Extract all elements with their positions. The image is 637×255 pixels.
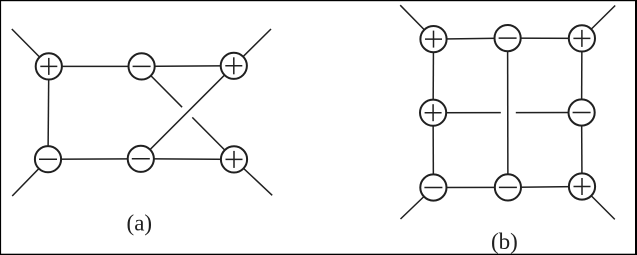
- wire A2-A3: [142, 65, 234, 68]
- wire A1-A4: [47, 66, 50, 159]
- wire B-BL - B-BM: [433, 186, 508, 188]
- svg-text:(b): (b): [491, 229, 518, 254]
- wire ray at node A3 (up-right): [234, 29, 271, 66]
- wire B-TL - B-TM: [434, 38, 508, 39]
- wire ray at node A6 (down-right): [234, 159, 272, 195]
- node B-BR (+): [569, 173, 595, 199]
- wire B-TM - B-BM (vertical, over crossing): [507, 38, 509, 187]
- wire ray at node B-TR (up-right): [582, 6, 615, 39]
- wire ray at node A1 (up-left): [12, 29, 49, 66]
- node B-TL (+): [420, 26, 446, 52]
- node B-MR (-): [569, 99, 595, 125]
- node B-ML (+): [420, 100, 446, 126]
- wire A2-A6 (broken at crossing, under): [142, 66, 234, 159]
- node A3 (+): [221, 53, 247, 79]
- node A5 (-): [128, 146, 154, 172]
- wire A5-A6: [141, 158, 234, 161]
- wire B-MR - B-BR: [581, 113, 583, 187]
- wire B-BM - B-BR: [508, 186, 582, 189]
- wire B-TR - B-MR: [581, 38, 583, 112]
- node A4 (-): [35, 146, 61, 172]
- node A1 (+): [36, 53, 62, 79]
- wire A1-A2: [49, 65, 142, 67]
- node B-TR (+): [569, 25, 595, 51]
- wire B-TL - B-ML: [432, 39, 434, 113]
- wire A5-A3 (over crossing): [141, 66, 234, 159]
- node B-TM (-): [495, 25, 521, 51]
- node A2 (-): [129, 53, 155, 79]
- wire ray at node B-TL (up-left): [400, 5, 433, 39]
- wire A4-A5: [48, 158, 141, 160]
- wire ray at node A4 (down-left): [12, 159, 48, 196]
- wire ray at node B-BR (down-right): [582, 187, 615, 220]
- wire B-ML - B-BL: [432, 113, 434, 188]
- node B-BM (-): [495, 174, 521, 200]
- wire B-TM - B-TR: [508, 37, 582, 39]
- node A6 (+): [221, 146, 247, 172]
- wire B-ML - B-MR (broken at crossing, under): [433, 112, 581, 114]
- svg-text:(a): (a): [127, 210, 153, 235]
- node B-BL (-): [420, 174, 446, 200]
- wire ray at node B-BL (down-left): [401, 188, 434, 220]
